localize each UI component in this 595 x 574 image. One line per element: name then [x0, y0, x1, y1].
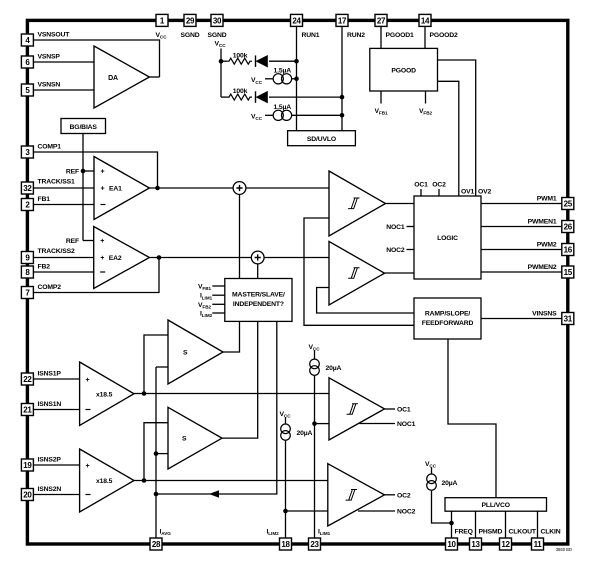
svg-text:17: 17	[338, 16, 347, 25]
svg-text:+: +	[101, 169, 105, 176]
diode (RUN2)	[255, 91, 257, 103]
wire PWMEN1	[481, 226, 562, 228]
wire ILIM1 to OC1 comparator	[315, 423, 330, 425]
svg-text:EA2: EA2	[109, 255, 122, 262]
svg-text:12: 12	[501, 540, 510, 549]
diode (RUN1)	[255, 55, 257, 66]
pin 16	[562, 244, 574, 256]
svg-text:CLKOUT: CLKOUT	[509, 529, 537, 536]
amplifier S2	[168, 407, 222, 469]
pin 2	[21, 199, 33, 211]
svg-text:26: 26	[564, 222, 573, 231]
node EA1 output	[155, 186, 160, 191]
pin 15	[562, 266, 574, 278]
resistor 100k (RUN1)	[221, 60, 227, 62]
wire REF from BG/BIAS	[82, 134, 84, 241]
block SD/UVLO	[288, 131, 356, 146]
svg-text:NOC2: NOC2	[397, 509, 416, 516]
svg-text:REF: REF	[66, 169, 79, 176]
svg-text:RUN2: RUN2	[347, 32, 365, 39]
amplifier S1	[168, 320, 223, 384]
wire VFB2 stub on master/slave	[212, 303, 225, 305]
wire CLKIN stub	[537, 511, 539, 538]
wire VFB2 stub under PGOOD	[425, 91, 427, 104]
wire PWM comparator 1 output	[386, 203, 415, 205]
svg-text:BG/BIAS: BG/BIAS	[70, 124, 98, 131]
svg-text:1.5µA: 1.5µA	[274, 67, 292, 74]
pin 28	[150, 538, 162, 550]
wire OV1 from PGOOD	[438, 81, 459, 196]
pin 12	[500, 538, 512, 550]
svg-text:FB1: FB1	[38, 196, 51, 203]
wire PWM1	[481, 203, 562, 205]
wire VFB1 stub on master/slave	[212, 285, 225, 287]
wire REF to EA1	[83, 170, 94, 172]
wire NOC1 stub on LOGIC	[407, 226, 415, 228]
resistor 100k (RUN2)	[221, 96, 227, 98]
wire FREQ stub	[451, 511, 453, 538]
node REF/EA1	[81, 169, 86, 174]
svg-text:RAMP/SLOPE/: RAMP/SLOPE/	[425, 311, 470, 318]
svg-text:PWMEN2: PWMEN2	[528, 264, 557, 271]
pin 3	[21, 146, 33, 158]
svg-text:DA: DA	[108, 75, 118, 82]
svg-text:NOC1: NOC1	[386, 224, 405, 231]
svg-text:TRACK/SS1: TRACK/SS1	[38, 179, 76, 186]
pin 22	[21, 373, 33, 385]
op-amp EA1	[94, 157, 149, 220]
wire FB2	[34, 271, 94, 273]
node RUN1/diode	[294, 59, 299, 64]
svg-text:ISNS2P: ISNS2P	[38, 457, 62, 464]
node S2 lower input on IAVG line	[154, 451, 159, 456]
wire OV2 from PGOOD	[438, 60, 476, 196]
svg-text:100k: 100k	[233, 52, 248, 59]
summing node 1	[233, 182, 246, 195]
wire ISNS1P	[34, 378, 80, 380]
wire IAVG to master/slave	[156, 321, 277, 494]
pin 23	[309, 538, 321, 550]
svg-text:15: 15	[564, 268, 573, 277]
wire ILIM1 stub on master/slave	[212, 294, 225, 296]
svg-text:FREQ: FREQ	[455, 529, 473, 536]
svg-text:CLKIN: CLKIN	[541, 529, 561, 536]
svg-text:PLL/VCO: PLL/VCO	[481, 502, 509, 509]
svg-text:PWMEN1: PWMEN1	[528, 219, 557, 226]
svg-text:SGND: SGND	[207, 32, 226, 39]
svg-text:16: 16	[564, 245, 573, 254]
pin 21	[21, 404, 33, 416]
pin 32	[21, 182, 33, 194]
node S1 input on x18.5 amp1 output	[142, 391, 147, 396]
svg-text:SD/UVLO: SD/UVLO	[307, 136, 336, 143]
wire RUN2	[341, 26, 343, 130]
svg-text:28: 28	[152, 540, 161, 549]
node RUN2/diode	[340, 95, 345, 100]
svg-text:VINSNS: VINSNS	[532, 311, 557, 318]
svg-text:OC1: OC1	[414, 182, 428, 189]
amplifier x18.5 (channel 1)	[80, 362, 134, 426]
wire S1 lower input	[156, 366, 168, 368]
svg-text:S: S	[182, 436, 187, 443]
svg-text:EA1: EA1	[109, 186, 122, 193]
pin 30	[211, 14, 223, 26]
svg-text:+: +	[86, 377, 90, 384]
wire ISNS1N	[34, 409, 80, 411]
svg-text:OV2: OV2	[478, 189, 492, 196]
wire NOC2 stub on LOGIC	[407, 249, 415, 251]
pin 10	[446, 538, 458, 550]
svg-text:OC1: OC1	[397, 407, 411, 414]
wire PHSMD stub	[475, 511, 477, 538]
svg-text:VSNSN: VSNSN	[38, 82, 61, 89]
wire ILIM2 stub on master/slave	[212, 312, 225, 314]
svg-text:VSNSOUT: VSNSOUT	[38, 32, 71, 39]
pin 18	[280, 538, 292, 550]
svg-text:23: 23	[310, 540, 319, 549]
svg-text:COMP2: COMP2	[38, 284, 62, 291]
svg-text:21: 21	[23, 405, 32, 414]
pin 17	[336, 14, 348, 26]
pin 6	[21, 56, 33, 68]
wire sum1 to PWM comparator 1	[246, 187, 329, 189]
svg-text:PGOOD2: PGOOD2	[430, 32, 459, 39]
node ILIM2 branch	[283, 509, 288, 514]
svg-text:OV1: OV1	[461, 189, 475, 196]
svg-text:+: +	[86, 463, 90, 470]
pin 25	[562, 198, 574, 210]
wire EA2 output	[149, 257, 251, 259]
wire VFB1 stub under PGOOD	[380, 91, 382, 104]
wire ISNS2P	[34, 464, 80, 466]
svg-text:20µA: 20µA	[297, 430, 313, 437]
svg-text:PGOOD: PGOOD	[391, 67, 416, 74]
svg-text:1.5µA: 1.5µA	[274, 104, 292, 111]
pin 31	[562, 313, 574, 325]
svg-text:REF: REF	[66, 238, 79, 245]
block LOGIC	[414, 196, 481, 279]
wire ILIM2 vertical	[285, 441, 287, 538]
wire ramp to PWM comparator 1	[304, 218, 414, 325]
wire CLKOUT stub	[505, 511, 507, 538]
svg-text:PWM1: PWM1	[537, 196, 557, 203]
wire S2 upper input	[144, 423, 168, 481]
svg-text:+: +	[100, 255, 104, 262]
svg-text:24: 24	[292, 16, 301, 25]
summing node 2	[251, 251, 264, 264]
svg-text:29: 29	[186, 16, 195, 25]
svg-text:SGND: SGND	[180, 32, 199, 39]
wire PWM2	[481, 249, 562, 251]
wire ramp to PWM comparator 2	[317, 288, 414, 314]
wire ILIM1 vertical	[314, 376, 316, 538]
wire x18.5 amp1 output	[134, 393, 329, 395]
wire COMP1 feedback	[34, 152, 158, 188]
svg-text:14: 14	[421, 16, 430, 25]
wire S1 upper input	[144, 335, 168, 394]
pin 9	[21, 252, 33, 264]
svg-text:20µA: 20µA	[442, 480, 458, 487]
svg-text:10: 10	[447, 540, 456, 549]
svg-text:VSNSP: VSNSP	[38, 54, 61, 61]
svg-text:+: +	[100, 238, 104, 245]
pin 20	[21, 489, 33, 501]
svg-text:+: +	[101, 186, 105, 193]
wire OC2 stub on LOGIC	[438, 189, 440, 196]
wire sum1 to master/slave block	[239, 194, 241, 278]
svg-text:100k: 100k	[233, 88, 248, 95]
svg-text:NOC2: NOC2	[386, 247, 405, 254]
wire REF to EA2	[83, 240, 94, 242]
pin 26	[562, 221, 574, 233]
op-amp DA	[94, 46, 149, 108]
op-amp EA2	[94, 227, 150, 289]
block PLL/VCO	[445, 498, 547, 512]
wire ILIM2 to OC2 comparator	[286, 510, 328, 512]
wire ISNS2N	[34, 494, 80, 496]
node RUN2/current source	[340, 113, 345, 118]
wire S2 output to master/slave	[222, 321, 258, 438]
wire sum2 to PWM comparator 2	[264, 257, 329, 259]
arrow on IAVG wire	[209, 490, 219, 498]
pin 11	[532, 538, 544, 550]
svg-text:RUN1: RUN1	[302, 32, 320, 39]
comparator OC1	[329, 378, 385, 440]
block PGOOD	[370, 48, 438, 91]
svg-text:OC2: OC2	[397, 492, 411, 499]
node ILIM1 branch	[312, 421, 317, 426]
pin 13	[470, 538, 482, 550]
svg-text:FB2: FB2	[38, 264, 51, 271]
svg-text:25: 25	[564, 199, 573, 208]
wire OC1 stub on LOGIC	[420, 189, 422, 196]
wire FB1	[34, 204, 95, 206]
svg-text:ISNS1N: ISNS1N	[38, 401, 62, 408]
wire VSNSN	[34, 89, 95, 91]
comparator PWM2	[329, 241, 385, 305]
svg-text:22: 22	[23, 375, 32, 384]
wire IAVG vertical	[155, 367, 157, 538]
svg-text:19: 19	[23, 461, 32, 470]
svg-text:LOGIC: LOGIC	[437, 235, 458, 242]
wire FREQ current source	[432, 491, 452, 523]
wire OC1 output	[385, 408, 396, 410]
node EA2 output	[157, 255, 162, 260]
svg-text:31: 31	[564, 314, 573, 323]
wire VSNSP	[34, 61, 95, 63]
wire S1 output to master/slave	[223, 321, 240, 352]
wire NOC1 output	[360, 423, 396, 425]
svg-text:11: 11	[534, 540, 543, 549]
pin 5	[21, 84, 33, 96]
svg-text:ISNS2N: ISNS2N	[38, 486, 62, 493]
node RUN1/current source	[294, 77, 299, 82]
svg-text:30: 30	[213, 16, 222, 25]
svg-text:x18.5: x18.5	[96, 392, 113, 399]
pin 8	[21, 266, 33, 278]
svg-text:PHSMD: PHSMD	[479, 529, 503, 536]
svg-text:OC2: OC2	[432, 182, 446, 189]
svg-text:3860 BD: 3860 BD	[556, 547, 572, 552]
wire OC2 output	[385, 494, 396, 496]
svg-text:FEEDFORWARD: FEEDFORWARD	[422, 320, 474, 327]
wire VINSNS	[481, 318, 562, 320]
pin 7	[21, 287, 33, 299]
svg-text:MASTER/SLAVE/: MASTER/SLAVE/	[232, 292, 285, 299]
node FREQ branch	[449, 521, 454, 526]
svg-text:INDEPENDENT?: INDEPENDENT?	[233, 301, 284, 308]
pin 14	[419, 14, 431, 26]
svg-text:13: 13	[471, 540, 480, 549]
svg-text:20µA: 20µA	[326, 365, 342, 372]
wire VCC feed for RUN resistors	[220, 49, 222, 98]
node IAVG branch	[154, 492, 159, 497]
pin 29	[184, 14, 196, 26]
wire COMP2 feedback	[34, 258, 160, 293]
pin 4	[21, 34, 33, 46]
wire TRACK/SS1	[34, 187, 95, 189]
wire RUN1	[296, 26, 298, 130]
wire x18.5 amp2 output	[134, 480, 328, 482]
svg-text:x18.5: x18.5	[96, 478, 113, 485]
wire S2 lower input	[156, 453, 168, 455]
wire PGOOD1 stub	[380, 26, 382, 48]
wire TRACK/SS2	[34, 257, 94, 259]
pin 27	[375, 14, 387, 26]
svg-text:PWM2: PWM2	[537, 242, 557, 249]
node S2 input on x18.5 amp2 output	[142, 478, 147, 483]
wire PWMEN2	[481, 271, 562, 273]
svg-text:PGOOD1: PGOOD1	[386, 32, 415, 39]
svg-text:S: S	[183, 350, 188, 357]
comparator OC2	[328, 464, 385, 526]
wire RAMP block to PLL/VCO	[448, 339, 496, 498]
amplifier x18.5 (channel 2)	[80, 449, 134, 512]
pin 19	[21, 459, 33, 471]
wire sum2 to master/slave block	[257, 264, 259, 279]
wire VSNSOUT to DA output	[34, 40, 160, 77]
svg-text:27: 27	[377, 16, 386, 25]
pin 24	[291, 14, 303, 26]
block MASTER/SLAVE/INDEPENDENT?	[225, 279, 292, 322]
wire PGOOD2 stub	[424, 26, 426, 48]
wire PWM comparator 2 output	[385, 272, 415, 274]
svg-text:20: 20	[23, 490, 32, 499]
block BG/BIAS	[61, 119, 106, 134]
block RAMP/SLOPE/FEEDFORWARD	[414, 298, 481, 339]
comparator PWM1	[329, 171, 386, 236]
node VCC/100k	[219, 59, 224, 64]
svg-text:ISNS1P: ISNS1P	[38, 371, 62, 378]
wire DA output	[149, 76, 159, 78]
wire EA1 output	[149, 187, 233, 189]
svg-text:32: 32	[23, 184, 32, 193]
svg-text:COMP1: COMP1	[38, 144, 62, 151]
pin 1	[156, 14, 168, 26]
wire NOC2 output	[358, 510, 395, 512]
svg-text:NOC1: NOC1	[397, 421, 416, 428]
svg-text:TRACK/SS2: TRACK/SS2	[38, 248, 76, 255]
svg-text:18: 18	[281, 540, 290, 549]
